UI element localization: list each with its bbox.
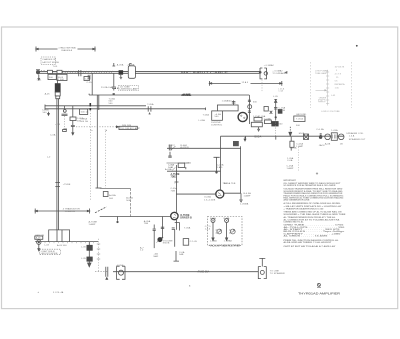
svg-text:1 AMP: 1 AMP xyxy=(296,145,303,148)
svg-text:LIGHTING LAMP: LIGHTING LAMP xyxy=(120,88,139,91)
svg-text:5 COL 4A: 5 COL 4A xyxy=(53,291,64,294)
svg-text:VACUUM-TUBE RECTIFIER: VACUUM-TUBE RECTIFIER xyxy=(210,244,241,247)
svg-text:500: 500 xyxy=(215,116,220,118)
svg-text:7DB: 7DB xyxy=(144,223,149,225)
svg-text:1 AMP: 1 AMP xyxy=(89,223,96,226)
svg-text:CONNECTED TO AL: CONNECTED TO AL xyxy=(283,221,304,224)
svg-text:TO SPEAKER: TO SPEAKER xyxy=(272,72,287,75)
svg-text:1 AMP: 1 AMP xyxy=(244,195,251,198)
svg-text:LAYOUT MODE: LAYOUT MODE xyxy=(41,252,58,255)
svg-text:CHASSIS A: CHASSIS A xyxy=(61,49,72,52)
svg-text:+ 0.5MA2: + 0.5MA2 xyxy=(272,70,283,73)
svg-text:1-05MA: 1-05MA xyxy=(240,203,249,206)
svg-text:C-5A: C-5A xyxy=(50,133,56,136)
svg-text:T-05: T-05 xyxy=(53,66,58,68)
svg-text:1AB: 1AB xyxy=(179,253,184,256)
svg-text:CHASSIS IN: CHASSIS IN xyxy=(42,58,56,61)
svg-text:+ TRANSFOR DEARTRONICS 0.150: + TRANSFOR DEARTRONICS 0.150 xyxy=(283,207,324,210)
svg-text:B-MA: B-MA xyxy=(210,217,216,220)
svg-text:L-05: L-05 xyxy=(81,247,86,249)
svg-text:B-MA: B-MA xyxy=(224,217,230,220)
svg-text:OMIT AT BUT AB TVILAGAI A 7 AM: OMIT AT BUT AB TVILAGAI A 7 AMS LAY xyxy=(283,245,336,248)
svg-text:TILL DELAY LAMP: TILL DELAY LAMP xyxy=(120,127,140,130)
svg-text:C-05: C-05 xyxy=(85,78,91,80)
svg-text:+C-5: +C-5 xyxy=(55,124,61,126)
svg-text:500: 500 xyxy=(49,77,54,79)
svg-text:500: 500 xyxy=(228,100,233,102)
svg-text:T-05A: T-05A xyxy=(184,227,191,230)
svg-text:C-05A: C-05A xyxy=(264,117,271,120)
svg-text:+TUBE: +TUBE xyxy=(63,184,71,186)
svg-text:L-05A: L-05A xyxy=(199,119,206,122)
svg-text:L-03: L-03 xyxy=(44,244,49,246)
svg-text:500 1A: 500 1A xyxy=(81,111,89,114)
svg-text:B-0.5A: B-0.5A xyxy=(244,192,252,195)
svg-text:L-01: L-01 xyxy=(37,80,42,82)
svg-text:10 VOLTS: 10 VOLTS xyxy=(335,67,345,69)
svg-text:A-05A: A-05A xyxy=(126,196,133,199)
svg-text:T-05A: T-05A xyxy=(203,114,210,117)
svg-text:T-05 A: T-05 A xyxy=(296,118,303,121)
svg-text:AND GENERATOR LINE: AND GENERATOR LINE xyxy=(283,199,310,202)
svg-text:7DB: 7DB xyxy=(171,190,176,192)
svg-text:O-05A: O-05A xyxy=(204,196,211,199)
svg-text:1B: 1B xyxy=(340,143,343,145)
svg-text:1 AMP: 1 AMP xyxy=(287,167,294,170)
svg-text:1-7MA8: 1-7MA8 xyxy=(224,239,233,242)
svg-text:C 0A: C 0A xyxy=(278,89,283,92)
svg-text:C-05A: C-05A xyxy=(290,147,297,150)
svg-text:A-05A: A-05A xyxy=(117,63,124,66)
svg-text:GROUND: GROUND xyxy=(296,114,307,116)
svg-text:+ 0.5MA2: + 0.5MA2 xyxy=(264,64,275,67)
svg-text:500: 500 xyxy=(109,198,114,200)
svg-text:TO SPEAKER: TO SPEAKER xyxy=(270,272,285,275)
svg-text:SOLDERED + THE RAIL BASE TUBES: SOLDERED + THE RAIL BASE TUBES A GRID TU… xyxy=(283,213,346,216)
svg-text:A-0B: A-0B xyxy=(325,142,331,145)
svg-text:DIM DIM: DIM DIM xyxy=(122,125,131,127)
svg-text:1-0.5: 1-0.5 xyxy=(205,228,211,230)
svg-text:P-01A: P-01A xyxy=(101,86,108,89)
svg-text:1.5DB: 1.5DB xyxy=(279,110,286,112)
svg-text:L-05: L-05 xyxy=(81,258,86,260)
svg-text:+0A RAIL: +0A RAIL xyxy=(182,94,192,97)
svg-text:500 1A: 500 1A xyxy=(80,120,88,123)
svg-text:REPEAT A: REPEAT A xyxy=(335,83,346,86)
svg-text:MA2: MA2 xyxy=(154,255,159,258)
svg-text:500: 500 xyxy=(296,125,301,127)
svg-text:LOW 0.1 150 TUBE: LOW 0.1 150 TUBE xyxy=(321,111,340,113)
svg-text:CONTROL: CONTROL xyxy=(211,124,223,126)
svg-text:A-05A: A-05A xyxy=(109,194,116,197)
svg-text:AL GRIDS . . . . . . . 15 AMS: AL GRIDS . . . . . . . 15 AMS xyxy=(283,235,328,238)
svg-text:IMPORTANT: IMPORTANT xyxy=(283,179,296,182)
svg-text:DRIVER B: DRIVER B xyxy=(180,217,192,220)
svg-text:7DB: 7DB xyxy=(223,183,228,185)
svg-text:SPEAKER OUT: SPEAKER OUT xyxy=(349,138,366,141)
svg-text:500: 500 xyxy=(126,200,131,202)
svg-text:MIC INPUT CABLE: MIC INPUT CABLE xyxy=(181,71,229,74)
svg-text:C-0A: C-0A xyxy=(287,159,293,162)
svg-text:+0A: +0A xyxy=(110,86,115,89)
svg-text:M-0A: M-0A xyxy=(299,132,305,135)
svg-text:C-05: C-05 xyxy=(87,82,93,84)
svg-text:1.5+2.5DB: 1.5+2.5DB xyxy=(204,199,216,201)
svg-text:1-05A: 1-05A xyxy=(331,129,338,132)
svg-text:T-05A: T-05A xyxy=(147,103,154,106)
svg-text:4 1 7 8: 4 1 7 8 xyxy=(335,74,342,76)
svg-text:500: 500 xyxy=(279,124,284,126)
svg-text:ARROW: ARROW xyxy=(35,234,45,237)
svg-text:1 A-5: 1 A-5 xyxy=(217,166,223,169)
svg-text:A-01: A-01 xyxy=(41,70,47,73)
svg-text:L-MA5: L-MA5 xyxy=(210,239,218,242)
svg-text:THYR01AD AMPLIFIER: THYR01AD AMPLIFIER xyxy=(298,292,340,296)
svg-text:500: 500 xyxy=(253,102,258,104)
svg-text:A-05: A-05 xyxy=(45,93,51,96)
svg-text:L-05: L-05 xyxy=(273,96,278,98)
svg-text:1.5 A: 1.5 A xyxy=(349,135,355,138)
svg-text:TUBE LAMP: TUBE LAMP xyxy=(315,72,327,75)
svg-text:500: 500 xyxy=(77,120,82,122)
svg-text:7DB2: 7DB2 xyxy=(171,175,178,178)
svg-text:A-05: A-05 xyxy=(36,237,42,240)
svg-text:500: 500 xyxy=(43,112,48,114)
svg-text:+FUSE: +FUSE xyxy=(116,265,124,267)
svg-text:KNOB: KNOB xyxy=(163,243,170,245)
svg-text:ALRA GRID AB TUBING 7.0 AL ADJ: ALRA GRID AB TUBING 7.0 AL ADJUST xyxy=(283,241,332,244)
svg-text:500: 500 xyxy=(109,103,114,105)
svg-text:1 500: 1 500 xyxy=(58,79,65,81)
svg-text:BU5 A: BU5 A xyxy=(255,135,262,138)
svg-text:SPEAKER COIL: SPEAKER COIL xyxy=(346,132,364,135)
svg-text:A-05DB: A-05DB xyxy=(180,146,189,149)
svg-text:+TUBE: +TUBE xyxy=(127,64,135,66)
svg-text:A FULL ENGINEERING OF CATALOGU: A FULL ENGINEERING OF CATALOGUE ALL MODE… xyxy=(283,202,341,205)
svg-text:C-0.5A: C-0.5A xyxy=(316,128,324,131)
svg-text:1 A: 1 A xyxy=(168,146,172,149)
svg-text:A-05 500: A-05 500 xyxy=(57,244,67,247)
svg-text:A-05A: A-05A xyxy=(165,168,172,171)
svg-text:C-1-05: C-1-05 xyxy=(190,241,198,243)
svg-text:12 A 5: 12 A 5 xyxy=(242,81,249,84)
svg-text:CHASSIS: CHASSIS xyxy=(65,210,76,213)
svg-text:L-05A: L-05A xyxy=(185,161,192,164)
svg-text:+FUSE 05A: +FUSE 05A xyxy=(197,271,210,274)
svg-text:LAYOUT MODE: LAYOUT MODE xyxy=(42,61,59,64)
svg-text:SO SERVICE FOR ALTERNATOR RAIL: SO SERVICE FOR ALTERNATOR RAILS OR LOWER xyxy=(283,184,335,187)
